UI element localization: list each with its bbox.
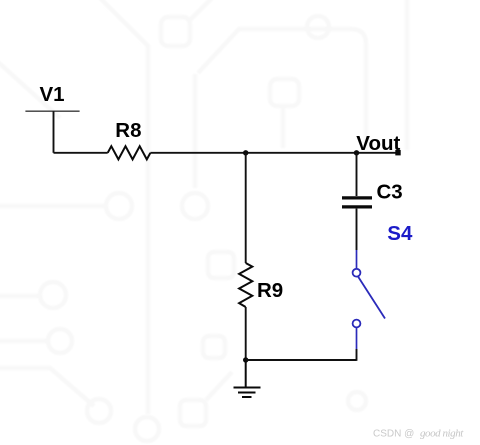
- wire bottom horizontal: [246, 359, 357, 361]
- wire switch to bottom wire (black): [356, 349, 358, 361]
- resistor R8: [108, 146, 151, 159]
- switch lever: [358, 277, 385, 319]
- wire main horizontal left segment: [54, 152, 108, 154]
- wire C3 to switch (black part): [356, 209, 358, 250]
- svg-text:CSDN @: CSDN @: [373, 429, 414, 440]
- node junction at R9 branch: [243, 150, 248, 155]
- svg-text:good night: good night: [420, 428, 464, 440]
- ground symbol: [234, 360, 261, 397]
- wire switch lead lower (blue): [356, 328, 358, 349]
- V1 top bar: [25, 110, 79, 112]
- wire C3 branch top: [356, 153, 358, 196]
- wire R9 branch upper: [245, 153, 247, 263]
- terminal Vout (square pin): [395, 150, 400, 155]
- voltage source V1 (clipped symbol): [25, 111, 79, 153]
- node junction at C3 branch: [354, 150, 359, 155]
- svg-text:R9: R9: [257, 279, 283, 302]
- svg-text:C3: C3: [377, 180, 403, 203]
- switch pin circle bottom: [353, 320, 361, 328]
- wire R9 branch lower: [245, 307, 247, 360]
- switch S4: [353, 250, 385, 349]
- capacitor C3: [342, 198, 372, 207]
- wire switch lead upper (blue): [356, 250, 358, 268]
- resistor R9: [239, 263, 252, 307]
- switch pin circle top: [353, 269, 361, 277]
- svg-text:S4: S4: [387, 222, 413, 245]
- svg-text:R8: R8: [115, 119, 141, 142]
- wire V1 vertical: [53, 111, 55, 153]
- wire main horizontal right segment: [150, 152, 398, 154]
- node junction at ground: [243, 357, 248, 362]
- svg-text:Vout: Vout: [356, 132, 400, 155]
- svg-text:V1: V1: [40, 83, 65, 106]
